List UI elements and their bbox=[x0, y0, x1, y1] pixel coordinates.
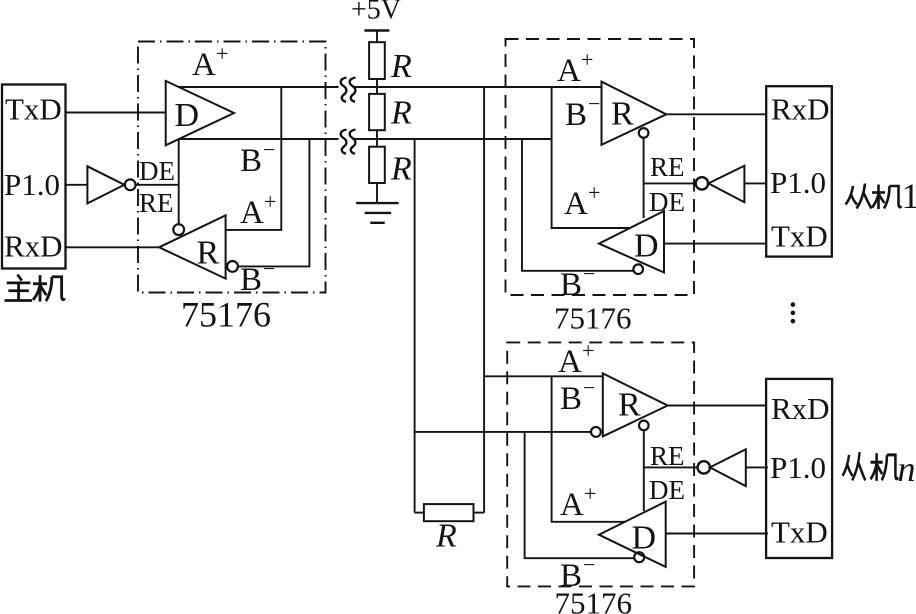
terminator resistor R body bbox=[424, 504, 474, 521]
svg-text:RxD: RxD bbox=[771, 92, 830, 127]
wire RE/DE vertical (slave 1) bbox=[643, 138, 645, 218]
wire RE/DE vertical (slave n) bbox=[643, 430, 645, 511]
wire bus A vertical drop to slave n and terminator bbox=[483, 87, 485, 513]
svg-text:P1.0: P1.0 bbox=[770, 165, 826, 200]
svg-text:B: B bbox=[560, 381, 582, 417]
label B− (slave 1 receiver input) bbox=[565, 91, 600, 133]
wire TxD to driver input (slave n) bbox=[666, 533, 768, 535]
svg-text:A: A bbox=[558, 344, 582, 380]
75176 master transceiver dash-dot box bbox=[138, 42, 326, 293]
svg-text:TxD: TxD bbox=[5, 92, 62, 127]
label A+ (slave 1 driver) bbox=[564, 180, 600, 222]
svg-text:B: B bbox=[240, 262, 262, 298]
label D (slave 1 driver) bbox=[634, 228, 659, 265]
resistor R3 body bbox=[369, 147, 385, 183]
receiver R triangle (master) bbox=[159, 215, 226, 278]
svg-text:R: R bbox=[390, 151, 412, 188]
driver D triangle (master) bbox=[166, 81, 234, 145]
svg-text:B: B bbox=[560, 558, 582, 594]
pin label TxD (slave n) bbox=[771, 515, 828, 550]
wire driver A+ output (slave n) bbox=[552, 376, 625, 522]
label A+ (master driver output) bbox=[192, 41, 228, 83]
wire bus B branch to slave n receiver bbox=[415, 431, 591, 433]
svg-text:RE: RE bbox=[650, 152, 685, 182]
label R (R3) bbox=[390, 151, 412, 188]
wire receiver A+ input (master) bbox=[226, 87, 282, 230]
label B− (master receiver input) bbox=[240, 256, 275, 298]
svg-text:RE: RE bbox=[650, 441, 685, 471]
svg-text:+: + bbox=[216, 41, 228, 66]
label 从机1 bbox=[846, 184, 902, 210]
inverter bubble (slave n) bbox=[698, 461, 710, 473]
terminator resistor R leads bbox=[415, 512, 485, 514]
vertical ellipsis between slaves bbox=[791, 302, 796, 323]
wire receiver B− input (master) bbox=[238, 139, 309, 266]
resistor R1 body bbox=[369, 42, 385, 79]
svg-text:TxD: TxD bbox=[771, 219, 828, 254]
75176 slave n dashed box bbox=[507, 342, 694, 586]
wire DE/RE vertical to enables bbox=[178, 139, 180, 224]
svg-text:RE: RE bbox=[139, 188, 174, 218]
wire bus A branch to slave n receiver bbox=[484, 375, 603, 377]
bubble on slave n receiver B input bbox=[591, 427, 601, 437]
label RE (master) bbox=[139, 188, 174, 218]
label B− (slave 1 driver) bbox=[560, 261, 595, 303]
pin label P1.0 (slave n) bbox=[770, 450, 826, 485]
svg-text:+: + bbox=[264, 189, 276, 214]
svg-text:−: − bbox=[583, 552, 595, 577]
pin label TxD (master) bbox=[5, 92, 62, 127]
pin label P1.0 (master) bbox=[4, 167, 60, 202]
driver D triangle (slave 1) bbox=[599, 211, 664, 273]
label B− (slave n receiver input) bbox=[560, 375, 595, 417]
wire driver B− output (slave 1) bbox=[522, 139, 633, 271]
svg-text:−: − bbox=[263, 256, 275, 281]
label RE (slave 1) bbox=[650, 152, 685, 182]
svg-text:+: + bbox=[584, 481, 596, 506]
label R (master receiver) bbox=[197, 235, 220, 272]
75176 slave 1 dashed box bbox=[506, 39, 695, 295]
svg-text:75176: 75176 bbox=[181, 295, 271, 335]
svg-text:D: D bbox=[175, 97, 200, 134]
svg-text:RxD: RxD bbox=[4, 229, 63, 264]
wire TxD to driver input (slave 1) bbox=[664, 243, 766, 245]
svg-text:n: n bbox=[898, 449, 916, 489]
slave n MCU box bbox=[766, 379, 832, 558]
wire RE/DE node to inverter bubble (slave 1) bbox=[644, 182, 696, 184]
wire bus B vertical drop to slave n and terminator bbox=[414, 139, 416, 513]
resistor R2 body bbox=[369, 94, 385, 130]
wire bus line A (segment left of break) bbox=[179, 86, 339, 88]
wire receiver output to RxD (slave 1) bbox=[666, 113, 766, 115]
inverter U3 (slave 1 enable) bbox=[708, 166, 744, 203]
receiver R triangle (slave 1) bbox=[602, 82, 667, 145]
label D (slave n driver) bbox=[632, 520, 657, 557]
pin label RxD (master) bbox=[4, 229, 63, 264]
wire driver B− output (slave n) bbox=[525, 432, 634, 558]
pin label TxD (slave 1) bbox=[771, 219, 828, 254]
RE bubble on receiver (master) bbox=[173, 224, 184, 235]
svg-text:DE: DE bbox=[139, 156, 175, 186]
svg-text:−: − bbox=[263, 137, 275, 162]
label R (R2) bbox=[390, 95, 412, 132]
svg-text:A: A bbox=[240, 195, 264, 231]
svg-text:A: A bbox=[560, 487, 584, 523]
inverter U2 output bubble bbox=[125, 179, 136, 190]
svg-text:1: 1 bbox=[902, 176, 916, 216]
label B− (master driver output) bbox=[240, 137, 275, 179]
ground symbol bbox=[356, 203, 399, 223]
label DE (slave 1) bbox=[649, 187, 685, 217]
svg-text:DE: DE bbox=[649, 475, 685, 505]
RE bubble on receiver (slave n) bbox=[639, 421, 649, 431]
label 主机 (master) bbox=[5, 275, 65, 302]
wire inverter to DE/RE node bbox=[136, 184, 179, 186]
pin label P1.0 (slave 1) bbox=[770, 165, 826, 200]
master MCU box bbox=[2, 85, 66, 269]
break symbol on bus A bbox=[341, 78, 356, 102]
wire P1.0 to inverter input bbox=[66, 184, 88, 186]
svg-text:B: B bbox=[560, 267, 582, 303]
svg-text:A: A bbox=[192, 47, 216, 83]
wire R3 to ground bbox=[376, 183, 378, 203]
svg-text:R: R bbox=[618, 387, 641, 424]
wire receiver output to RxD (master) bbox=[66, 246, 160, 248]
svg-text:A: A bbox=[564, 186, 588, 222]
inverter bubble (slave 1) bbox=[696, 177, 708, 189]
wire R1 to R2 through bus A bbox=[376, 79, 378, 94]
svg-text:D: D bbox=[634, 228, 659, 265]
label R (R1) bbox=[390, 48, 412, 85]
wire bus line B (main run to slave 1) bbox=[353, 138, 552, 140]
label RE (slave n) bbox=[650, 441, 685, 471]
pin label RxD (slave n) bbox=[771, 391, 830, 426]
svg-text:R: R bbox=[435, 518, 457, 555]
wire receiver output to RxD (slave n) bbox=[668, 405, 766, 407]
svg-text:+: + bbox=[581, 47, 593, 72]
label 75176 (master) bbox=[181, 295, 271, 335]
label R (slave n receiver) bbox=[618, 387, 641, 424]
svg-text:P1.0: P1.0 bbox=[770, 450, 826, 485]
wire RE/DE node to inverter bubble (slave n) bbox=[644, 466, 698, 468]
svg-text:75176: 75176 bbox=[554, 301, 632, 336]
svg-text:−: − bbox=[583, 375, 595, 400]
svg-text:R: R bbox=[611, 96, 634, 133]
svg-text:TxD: TxD bbox=[771, 515, 828, 550]
svg-text:+: + bbox=[588, 180, 600, 205]
wire driver A+ output (slave 1) bbox=[552, 87, 631, 228]
pin label RxD (slave 1) bbox=[771, 92, 830, 127]
svg-text:R: R bbox=[390, 48, 412, 85]
wire inverter to P1.0 (slave n) bbox=[746, 466, 768, 468]
svg-text:+: + bbox=[582, 338, 594, 363]
inverter U4 (slave n enable) bbox=[710, 449, 746, 486]
label A+ (slave 1 receiver input) bbox=[557, 47, 593, 89]
label A+ (slave n receiver input) bbox=[558, 338, 594, 380]
svg-text:−: − bbox=[583, 261, 595, 286]
receiver R triangle (slave n) bbox=[603, 373, 668, 436]
label R (terminator) bbox=[435, 518, 457, 555]
label A+ (slave n driver) bbox=[560, 481, 596, 523]
power +5V label bbox=[351, 0, 401, 26]
wire TxD to driver input bbox=[66, 112, 167, 114]
svg-text:B: B bbox=[565, 97, 587, 133]
bubble on driver B− output (slave 1) bbox=[633, 264, 643, 274]
label 75176 (slave n) bbox=[555, 586, 633, 614]
label A+ (master receiver input) bbox=[240, 189, 276, 231]
label D (master driver) bbox=[175, 97, 200, 134]
svg-text:A: A bbox=[557, 53, 581, 89]
label R (slave 1 receiver) bbox=[611, 96, 634, 133]
label B− (slave n driver) bbox=[560, 552, 595, 594]
slave 1 MCU box bbox=[766, 86, 832, 256]
wire inverter to P1.0 (slave 1) bbox=[744, 182, 766, 184]
svg-text:−: − bbox=[588, 91, 600, 116]
bubble on driver B− output (slave n) bbox=[634, 552, 644, 562]
inverter U2 (master enable) bbox=[87, 166, 124, 203]
svg-text:DE: DE bbox=[649, 187, 685, 217]
svg-text:R: R bbox=[390, 95, 412, 132]
wire bus line B (segment left of break) bbox=[179, 138, 339, 140]
driver D triangle (slave n) bbox=[599, 502, 666, 567]
svg-text:R: R bbox=[197, 235, 220, 272]
label 从机n bbox=[842, 452, 898, 481]
bubble on receiver B− input (master) bbox=[227, 261, 238, 272]
wire bus line A (main run to slave 1) bbox=[353, 86, 602, 88]
label 75176 (slave 1) bbox=[554, 301, 632, 336]
label DE (slave n) bbox=[649, 475, 685, 505]
break symbol on bus B bbox=[341, 130, 356, 154]
label DE (master) bbox=[139, 156, 175, 186]
svg-text:+5V: +5V bbox=[351, 0, 401, 26]
svg-text:RxD: RxD bbox=[771, 391, 830, 426]
svg-text:B: B bbox=[240, 143, 262, 179]
wire +5V to R1 bbox=[376, 31, 378, 43]
wire R2 to R3 through bus B bbox=[376, 130, 378, 147]
RE bubble on receiver (slave 1) bbox=[639, 128, 649, 138]
power +5V terminal bar bbox=[364, 29, 389, 31]
svg-text:D: D bbox=[632, 520, 657, 557]
svg-text:P1.0: P1.0 bbox=[4, 167, 60, 202]
